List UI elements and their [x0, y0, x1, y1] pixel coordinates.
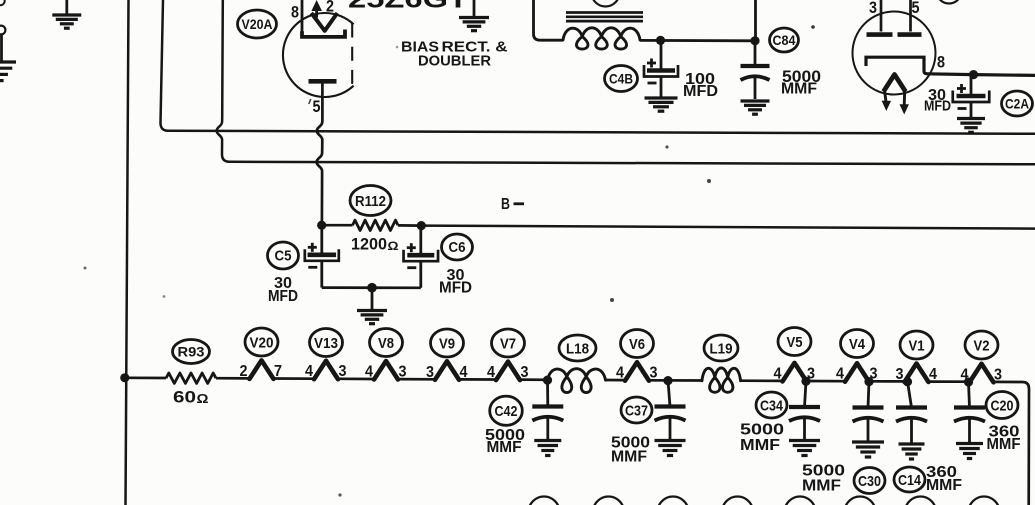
svg-text:L19: L19	[710, 340, 733, 357]
svg-text:C34: C34	[760, 397, 784, 414]
svg-text:R112: R112	[355, 193, 386, 210]
svg-text:4: 4	[365, 364, 373, 381]
svg-text:1200: 1200	[351, 235, 387, 254]
svg-text:Ω: Ω	[388, 239, 399, 253]
svg-text:4: 4	[305, 363, 313, 380]
svg-text:C5: C5	[275, 249, 292, 265]
svg-text:4: 4	[487, 364, 495, 381]
svg-text:5000: 5000	[740, 422, 784, 439]
svg-text:3: 3	[339, 363, 347, 380]
svg-text:MFD: MFD	[439, 280, 472, 297]
svg-text:C37: C37	[625, 402, 648, 419]
svg-text:V8: V8	[378, 335, 394, 352]
svg-text:4: 4	[460, 364, 468, 381]
svg-text:MMF: MMF	[987, 436, 1021, 453]
svg-text:DOUBLER: DOUBLER	[418, 53, 491, 70]
svg-text:3: 3	[521, 364, 529, 381]
svg-text:Ω: Ω	[197, 392, 209, 406]
svg-text:C30: C30	[858, 473, 881, 490]
svg-text:V1: V1	[909, 337, 925, 354]
svg-text:C6: C6	[449, 240, 466, 256]
svg-text:C4B: C4B	[609, 71, 633, 86]
svg-text:V6: V6	[629, 336, 645, 353]
svg-text:4: 4	[836, 366, 844, 383]
svg-text:V5: V5	[787, 334, 803, 351]
svg-text:V9: V9	[439, 335, 455, 352]
svg-text:8: 8	[291, 3, 299, 22]
svg-text:C42: C42	[495, 403, 518, 420]
svg-text:L18: L18	[566, 340, 589, 357]
svg-text:V13: V13	[314, 335, 338, 352]
svg-text:2: 2	[240, 363, 248, 380]
svg-text:4: 4	[929, 366, 937, 383]
svg-text:MMF: MMF	[611, 449, 647, 466]
svg-text:V2: V2	[974, 337, 990, 354]
svg-text:5: 5	[912, 0, 920, 17]
svg-text:MFD: MFD	[924, 98, 951, 115]
svg-text:R93: R93	[178, 343, 205, 359]
svg-text:MMF: MMF	[740, 437, 780, 454]
svg-text:4: 4	[774, 365, 782, 382]
svg-text:3: 3	[426, 364, 434, 381]
svg-text:MFD: MFD	[683, 83, 718, 100]
svg-text:3: 3	[869, 0, 877, 17]
svg-text:MMF: MMF	[926, 477, 962, 494]
svg-text:3: 3	[399, 364, 407, 381]
svg-text:3: 3	[896, 366, 904, 383]
svg-text:MMF: MMF	[781, 81, 817, 98]
svg-text:3: 3	[650, 365, 658, 382]
svg-text:3: 3	[994, 366, 1002, 383]
svg-text:4: 4	[616, 365, 624, 382]
svg-text:MMF: MMF	[487, 439, 522, 456]
svg-text:C84: C84	[773, 33, 796, 48]
svg-text:C14: C14	[898, 472, 922, 489]
svg-text:8: 8	[937, 53, 945, 72]
svg-text:7: 7	[274, 363, 282, 380]
svg-text:MMF: MMF	[802, 478, 841, 495]
svg-text:V7: V7	[500, 335, 516, 352]
svg-text:V20: V20	[250, 334, 274, 351]
svg-text:B: B	[501, 196, 510, 213]
svg-text:2: 2	[326, 0, 334, 16]
svg-text:25Z6GT: 25Z6GT	[348, 0, 468, 14]
svg-text:60: 60	[173, 388, 196, 407]
svg-text:C2A: C2A	[1005, 95, 1029, 111]
svg-text:V20A: V20A	[242, 16, 273, 32]
svg-text:V4: V4	[849, 336, 866, 353]
svg-text:MFD: MFD	[268, 288, 298, 305]
svg-text:5: 5	[313, 97, 321, 116]
svg-text:C20: C20	[991, 397, 1014, 414]
